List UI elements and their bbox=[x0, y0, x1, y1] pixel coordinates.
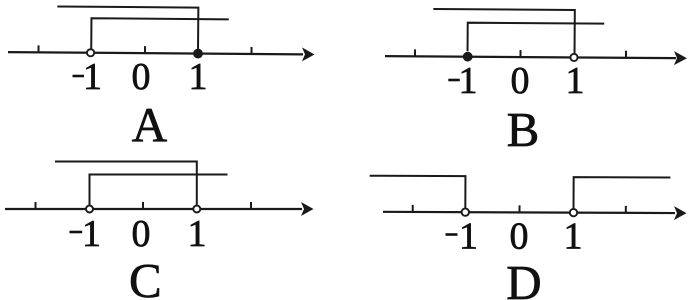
svg-text:0: 0 bbox=[510, 216, 529, 258]
svg-text:1: 1 bbox=[83, 56, 102, 98]
svg-text:1: 1 bbox=[189, 56, 208, 98]
svg-text:B: B bbox=[507, 102, 540, 157]
svg-text:1: 1 bbox=[188, 213, 207, 255]
svg-text:0: 0 bbox=[132, 56, 151, 98]
svg-text:1: 1 bbox=[82, 213, 101, 255]
svg-text:0: 0 bbox=[511, 60, 530, 102]
svg-text:D: D bbox=[506, 255, 541, 300]
svg-text:1: 1 bbox=[459, 216, 478, 258]
svg-text:0: 0 bbox=[132, 213, 151, 255]
svg-text:A: A bbox=[132, 97, 168, 152]
svg-text:1: 1 bbox=[564, 216, 583, 258]
svg-text:1: 1 bbox=[566, 60, 585, 102]
svg-text:C: C bbox=[129, 253, 162, 300]
svg-text:1: 1 bbox=[459, 60, 478, 102]
